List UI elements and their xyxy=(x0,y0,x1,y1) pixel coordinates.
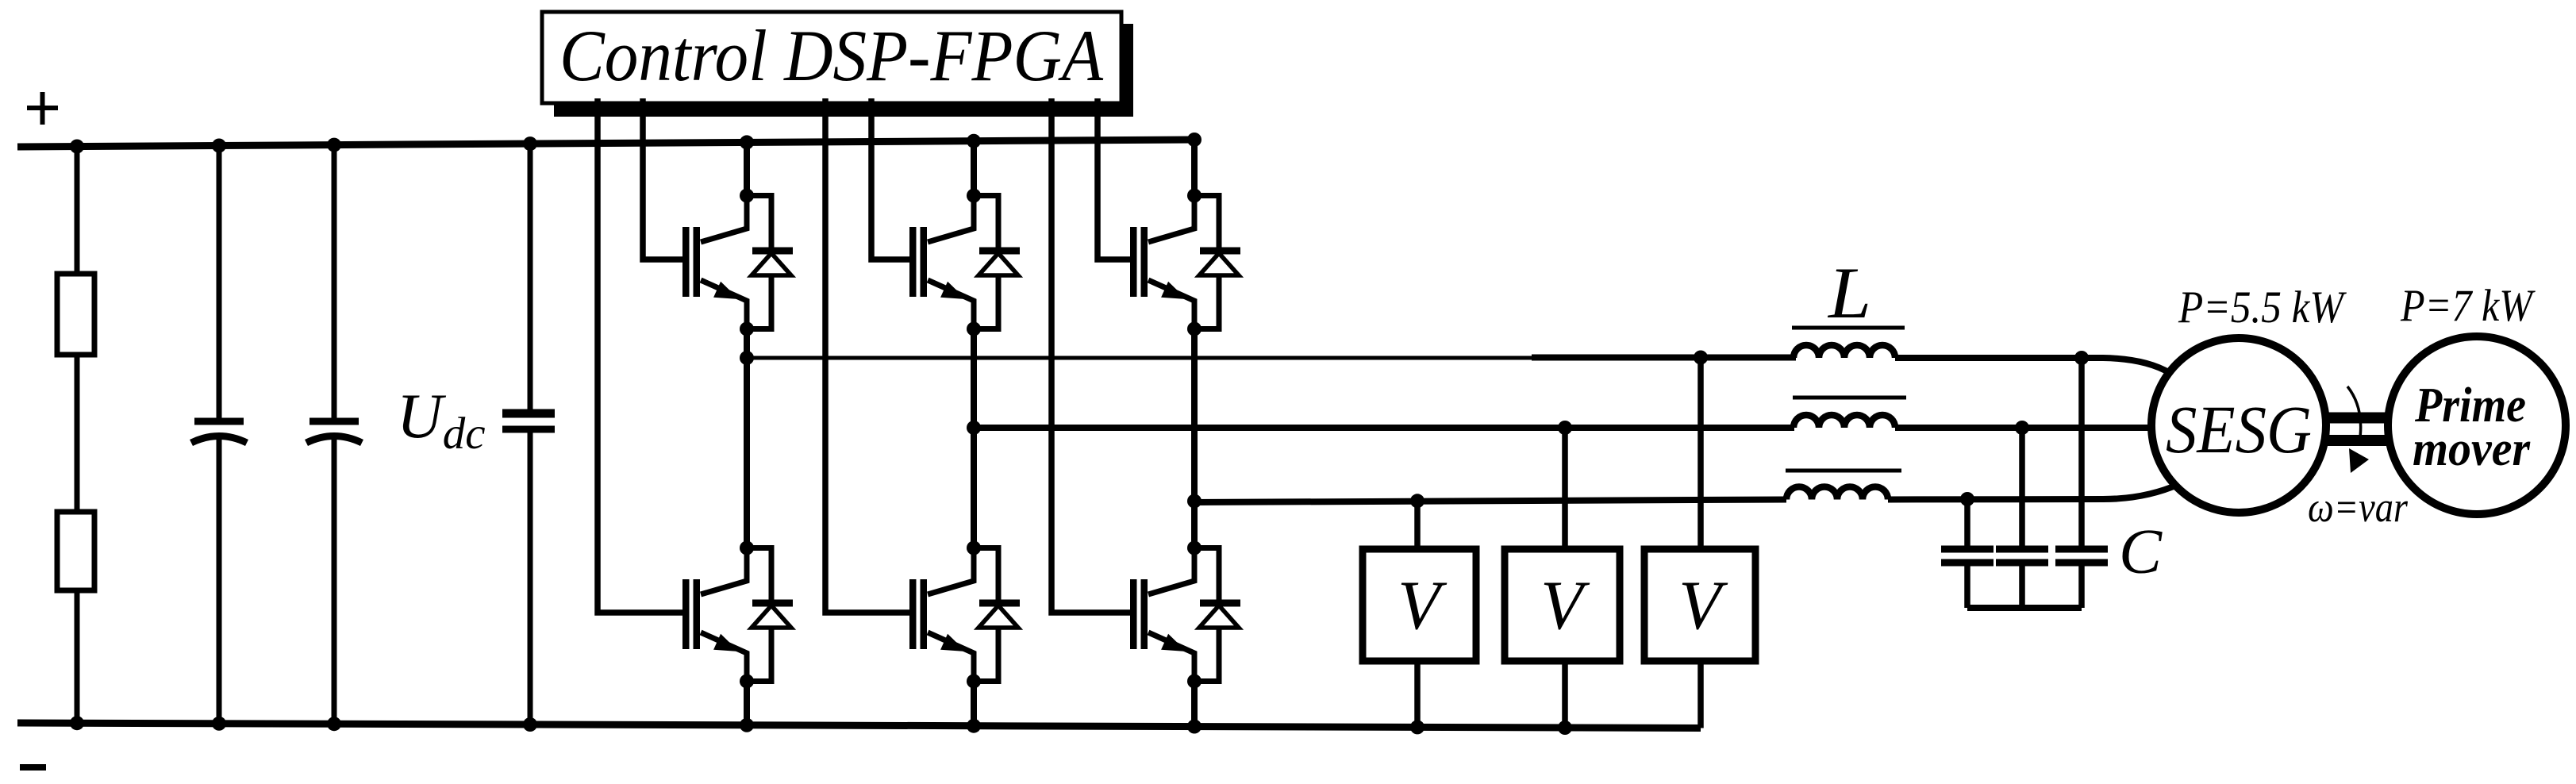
transistor Q1H body bar xyxy=(694,227,701,297)
transistor Q3H emitter arrow xyxy=(1161,282,1186,299)
diode D3L cathode bar xyxy=(1200,600,1240,607)
svg-text:V: V xyxy=(1540,567,1590,644)
wire Cc upper lead xyxy=(2078,358,2085,549)
transistor Q3L gate bar xyxy=(1130,579,1137,649)
wire phase C inductor to SESG xyxy=(1888,484,2179,500)
rotation arc xyxy=(2347,386,2361,443)
wire gate drive lower Q1L from controller xyxy=(598,98,690,613)
wire leg 3 to bottom bus xyxy=(1191,681,1198,727)
transistor Q3L collector lead xyxy=(1148,543,1194,594)
svg-text:Control DSP-FPGA: Control DSP-FPGA xyxy=(559,15,1104,96)
wire phase A (thick segment) xyxy=(1532,355,1796,361)
wire leg 1 to bottom bus xyxy=(744,681,750,725)
wire leg 3 midpoint xyxy=(1191,329,1198,551)
diode D2L anode lead xyxy=(974,628,998,682)
wire V1 upper lead to phase C xyxy=(1414,501,1421,552)
transistor Q1L emitter lead xyxy=(701,632,747,684)
diode D3L anode lead xyxy=(1194,628,1219,682)
capacitor Ca bottom plate xyxy=(1941,559,1994,567)
diode D1H anode lead xyxy=(747,275,771,329)
diode D3L triangle xyxy=(1199,605,1239,628)
node junction bottom bus / leg 2 xyxy=(967,719,981,733)
diode D3H cathode lead xyxy=(1194,196,1219,252)
node phase C junction xyxy=(1187,494,1201,509)
wire V1 lower lead to bottom bus xyxy=(1414,661,1421,727)
wire resistor chain upper lead xyxy=(75,147,80,280)
node junction phase C / C-bank xyxy=(1960,492,1974,506)
inductor L phase C core line xyxy=(1786,469,1901,473)
shaft coupling upper bar xyxy=(2324,413,2390,424)
generator SESG circle xyxy=(2151,338,2326,513)
node junction phase A / C-bank xyxy=(2074,351,2089,365)
controller box drop shadow xyxy=(554,24,1133,117)
transistor Q3L emitter lead xyxy=(1148,632,1194,684)
transistor Q2L body bar xyxy=(921,579,928,649)
inductor L phase A core line xyxy=(1792,326,1905,330)
wire V3 upper lead to phase A xyxy=(1697,358,1704,553)
transistor Q2L emitter lead xyxy=(928,632,974,684)
node junction top bus / C2 xyxy=(327,138,341,152)
wire C3 lower lead xyxy=(528,429,533,724)
diode D1L cathode lead xyxy=(747,548,771,604)
wire leg 2 to bottom bus xyxy=(971,681,977,726)
wire gate drive lower Q3L from controller xyxy=(1052,98,1137,613)
node junction top bus / leg 3 xyxy=(1187,133,1201,147)
diode D1H cathode bar xyxy=(752,248,793,255)
node junction top bus / leg 2 xyxy=(967,134,981,148)
wire C1 upper lead xyxy=(217,146,222,422)
inductor L phase C xyxy=(1786,487,1888,500)
capacitor C1 curved bottom plate xyxy=(191,436,247,444)
transistor Q3H emitter lead xyxy=(1148,280,1194,332)
wire leg 1 midpoint xyxy=(744,329,750,551)
node junction phase C / V1 xyxy=(1410,494,1424,508)
transistor Q1L collector lead xyxy=(701,543,747,594)
capacitor Cb top plate xyxy=(1996,546,2048,553)
diode D2L cathode lead xyxy=(974,548,998,604)
diode D1L triangle xyxy=(752,605,791,628)
transistor Q2H body bar xyxy=(921,227,928,297)
node Q1H emitter junction xyxy=(740,322,754,336)
node junction bottom bus / C2 xyxy=(327,717,341,731)
wire leg 3 from top bus xyxy=(1191,140,1198,198)
diode D2L cathode bar xyxy=(979,600,1020,607)
voltmeter V3 box xyxy=(1644,549,1755,661)
svg-text:mover: mover xyxy=(2413,422,2531,476)
wire phase A inductor to SESG xyxy=(1895,358,2170,373)
transistor Q1H collector lead xyxy=(701,190,747,242)
wire phase C xyxy=(1194,500,1786,503)
transistor Q2H collector lead xyxy=(928,190,974,242)
wire C1 lower lead xyxy=(217,437,222,724)
diode D1L cathode bar xyxy=(752,600,793,607)
transistor Q1L gate bar xyxy=(682,579,690,649)
resistor R2 xyxy=(57,512,94,590)
voltmeter V2 box xyxy=(1505,549,1620,661)
wire between R1 and R2 xyxy=(75,355,80,512)
transistor Q1L emitter arrow xyxy=(713,634,739,651)
svg-text:P=7 kW: P=7 kW xyxy=(2400,281,2536,331)
capacitor C3 top plate xyxy=(502,409,555,418)
node junction bottom bus / leg 3 xyxy=(1187,720,1201,734)
wire leg 2 midpoint xyxy=(971,329,977,551)
node Q2H emitter junction xyxy=(967,322,981,336)
wire phase B inductor to SESG xyxy=(1895,425,2154,431)
wire C2 upper lead xyxy=(332,145,337,421)
wire C2 lower lead xyxy=(332,437,337,724)
inductor L phase B xyxy=(1794,415,1895,428)
capacitor Cc top plate xyxy=(2055,546,2108,553)
wire resistor chain lower lead xyxy=(75,590,80,723)
transistor Q1L body bar xyxy=(694,579,701,649)
voltmeter V1 box xyxy=(1363,549,1476,661)
node Q3H collector junction xyxy=(1187,189,1201,203)
diode D3H cathode bar xyxy=(1200,248,1240,255)
diode D1H triangle xyxy=(752,253,791,275)
node junction top bus / C3 xyxy=(523,136,537,151)
node junction bottom bus / leg 1 xyxy=(740,718,754,732)
node Q2L collector junction xyxy=(967,541,981,555)
node junction phase B / C-bank xyxy=(2015,421,2029,435)
inductor L phase B core line xyxy=(1793,396,1906,400)
wire V3 lower lead to bottom bus xyxy=(1697,661,1704,728)
wire gate drive upper Q3H from controller xyxy=(1098,98,1137,259)
node Q1L collector junction xyxy=(740,541,754,555)
prime mover circle xyxy=(2388,336,2566,514)
wire V2 lower lead to bottom bus xyxy=(1562,661,1568,728)
minus terminal label xyxy=(20,764,46,771)
capacitor Cb bottom plate xyxy=(1996,559,2048,567)
wire Cb upper lead xyxy=(2019,428,2025,549)
capacitor C3 bottom plate xyxy=(502,426,555,433)
wire Cc lower lead xyxy=(2078,563,2085,608)
capacitor Ca top plate xyxy=(1941,546,1994,553)
inductor L phase A xyxy=(1794,345,1895,358)
svg-text:V: V xyxy=(1678,567,1728,644)
transistor Q2L emitter arrow xyxy=(940,634,966,651)
node phase A junction xyxy=(740,351,754,365)
wire phase B xyxy=(974,425,1794,431)
node junction bottom bus / V1 xyxy=(1410,720,1424,734)
transistor Q2H emitter lead xyxy=(928,280,974,332)
svg-text:SESG: SESG xyxy=(2166,391,2312,467)
node junction phase A / V3 xyxy=(1694,351,1708,365)
plus terminal label xyxy=(27,106,58,110)
transistor Q2H gate bar xyxy=(909,227,917,297)
wire gate drive lower Q2L from controller xyxy=(825,98,917,613)
transistor Q3L emitter arrow xyxy=(1161,634,1186,651)
transistor Q1H emitter arrow xyxy=(713,282,739,299)
wire top DC bus (+) xyxy=(17,140,1194,147)
capacitor C2 top plate xyxy=(310,418,359,425)
wire leg 2 from top bus xyxy=(971,141,977,198)
svg-text:L: L xyxy=(1827,252,1871,333)
node junction phase B / V2 xyxy=(1558,421,1572,435)
node Q1L emitter junction xyxy=(740,674,754,689)
diode D3H triangle xyxy=(1199,253,1239,275)
wire C3 upper lead xyxy=(528,144,533,413)
transistor Q1H gate bar xyxy=(682,227,690,297)
node Q2H collector junction xyxy=(967,189,981,203)
node junction top bus / resistor chain xyxy=(70,140,84,154)
node Q1H collector junction xyxy=(740,189,754,203)
wire C-bank bottom tie xyxy=(1967,605,2082,611)
wire phase A (thin segment) xyxy=(747,356,1533,360)
svg-text:ω=var: ω=var xyxy=(2308,483,2409,531)
rotation arrowhead xyxy=(2349,448,2369,473)
node junction bottom bus / V2 xyxy=(1558,721,1572,735)
svg-text:C: C xyxy=(2119,516,2163,587)
transistor Q3L body bar xyxy=(1141,579,1148,649)
capacitor Cc bottom plate xyxy=(2055,559,2108,567)
transistor Q2L gate bar xyxy=(909,579,917,649)
wire bottom DC bus (-) xyxy=(17,723,1701,728)
resistor R1 xyxy=(57,274,94,355)
wire leg 1 from top bus xyxy=(744,142,750,198)
capacitor C2 curved bottom plate xyxy=(306,436,362,444)
wire gate drive upper Q1H from controller xyxy=(643,98,690,259)
diode D2H anode lead xyxy=(974,275,998,329)
node junction bottom bus / resistor chain xyxy=(70,716,84,730)
node junction top bus / C1 xyxy=(212,139,226,153)
transistor Q2L collector lead xyxy=(928,543,974,594)
transistor Q1H emitter lead xyxy=(701,280,747,332)
transistor Q3H collector lead xyxy=(1148,190,1194,242)
wire Ca upper lead xyxy=(1964,499,1970,549)
node Q2L emitter junction xyxy=(967,674,981,689)
diode D3H anode lead xyxy=(1194,275,1219,329)
capacitor C1 top plate xyxy=(194,418,244,425)
svg-text:P=5.5 kW: P=5.5 kW xyxy=(2178,282,2347,332)
diode D2H cathode lead xyxy=(974,196,998,252)
transistor Q3H gate bar xyxy=(1130,227,1137,297)
svg-text:V: V xyxy=(1398,567,1448,644)
node junction bottom bus / C1 xyxy=(212,717,226,731)
node Q3L collector junction xyxy=(1187,541,1201,555)
wire V2 upper lead to phase B xyxy=(1562,428,1568,552)
diode D3L cathode lead xyxy=(1194,548,1219,604)
node Q3H emitter junction xyxy=(1187,322,1201,336)
node junction top bus / leg 1 xyxy=(740,135,754,149)
diode D1L anode lead xyxy=(747,628,771,682)
transistor Q2H emitter arrow xyxy=(940,282,966,299)
node phase B junction xyxy=(967,421,981,435)
node junction bottom bus / C3 xyxy=(523,717,537,732)
diode D1H cathode lead xyxy=(747,196,771,252)
diode D2H triangle xyxy=(978,253,1018,275)
wire gate drive upper Q2H from controller xyxy=(871,98,917,259)
diode D2L triangle xyxy=(978,605,1018,628)
transistor Q3H body bar xyxy=(1141,227,1148,297)
wire Cb lower lead xyxy=(2019,563,2025,608)
wire Ca lower lead xyxy=(1964,563,1970,608)
controller box U1 (Control DSP-FPGA) xyxy=(542,12,1121,103)
diode D2H cathode bar xyxy=(979,248,1020,255)
node Q3L emitter junction xyxy=(1187,674,1201,689)
shaft coupling lower bar xyxy=(2324,435,2390,446)
